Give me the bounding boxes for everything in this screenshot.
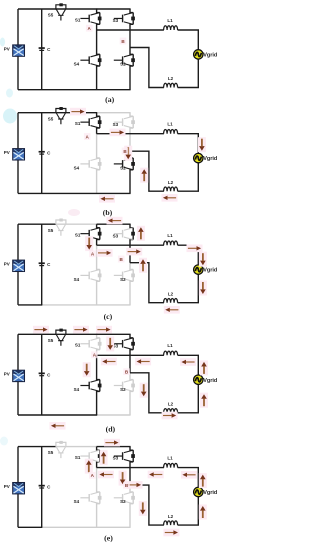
transistor S4 (e) gate lead [80,497,89,499]
svg-text:S4: S4 [74,165,80,170]
current arrow u (c) through S3 diode [137,226,145,241]
wire S4 to bottom rail (e) [97,504,100,528]
svg-text:S2: S2 [120,499,126,504]
svg-text:Vgrid: Vgrid [203,53,217,59]
svg-text:S3: S3 [113,18,119,23]
svg-text:S5: S5 [48,338,54,343]
svg-text:(e): (e) [104,534,113,543]
transistor S5 (d) body trapezoid [56,335,65,341]
svg-text:L1: L1 [167,18,173,23]
svg-text:Vgrid: Vgrid [203,378,217,384]
current arrow r (e) node B to L2 branch [127,481,143,489]
transistor S4 (a) gate lead [80,59,89,61]
wire top rail right (e) [97,446,131,448]
transistor S3 (d) channel/diode bar [132,338,134,350]
wire S3 emitter lead to node B (b) [130,128,133,151]
transistor S1 (e) channel/diode bar [99,450,101,462]
transistor S1 (b) gate lead [80,121,89,123]
transistor S5 (c) body trapezoid [56,225,65,231]
wire top rail left (d) [18,333,56,335]
wire L1 to grid (d) [178,355,199,375]
transistor S3 (d) body [124,338,133,350]
background smudge 6 [0,437,8,446]
transistor S3 (c) gate lead [114,233,123,235]
wire node A to S4 (a) [97,30,100,54]
wire L1 to grid (c) [178,245,199,265]
current arrow r (e) through L2 [163,529,179,537]
transistor S5 (d) gate [58,341,63,346]
svg-text:S5: S5 [48,228,54,233]
current arrow r (b) top rail after S5 [70,108,86,116]
current arrow u (d) out of grid top [200,360,208,375]
wire node B to S2 (a) [130,48,133,55]
node A (b) [84,133,91,140]
node A (c) [89,250,96,257]
svg-text:S5: S5 [48,450,54,455]
wire node B to S2 (c) [130,263,133,270]
wire left rail / PV branch (b) [17,113,19,194]
AC source Vgrid (b) [194,153,203,162]
transistor S2 (a) body [124,54,133,66]
wire S1 emitter lead to node A (a) [97,24,100,30]
wire node A to L1 (a) [97,29,164,31]
transistor S2 (e) gate lead [114,497,123,499]
svg-text:S3: S3 [113,233,119,238]
svg-text:(d): (d) [106,425,116,434]
transistor S5 (c) gate [58,231,63,236]
transistor S3 (b) diode dot [131,120,135,124]
svg-text:L2: L2 [168,291,174,296]
svg-text:S1: S1 [75,121,81,126]
wire bottom rail active part (e) [18,526,42,528]
wire top rail right (c) [97,223,131,225]
svg-text:PV: PV [4,150,10,155]
svg-text:S2: S2 [120,165,126,170]
inductor L1 (c) [164,241,178,245]
wire S3 collector lead (a) [130,9,133,13]
wire S1 emitter lead to node A (d) [97,350,100,356]
transistor S3 (b) body [124,116,133,128]
transistor S2 (c) body [124,270,133,282]
wire L2 to node B branch (a) [130,48,164,88]
current arrow l (e) L1 to node A 1 [98,471,114,479]
wire S3 emitter lead to node B (a) [130,24,133,47]
transistor S1 (e) gate bar [88,452,90,460]
transistor S5 (e) diode dot [59,441,62,444]
transistor S1 (a) gate lead [80,17,89,19]
current arrow r (c) after L1 [187,245,203,253]
current arrow l (d) L1 to node A 3 [180,358,196,366]
transistor S3 (c) channel/diode bar [132,228,134,240]
transistor S3 (d) gate lead [114,343,123,345]
wire top rail left (c) [18,223,56,225]
svg-text:L2: L2 [168,402,174,407]
current arrow l (c) through L2 [164,306,180,314]
svg-text:(b): (b) [103,208,113,217]
transistor S4 (d) diode dot [98,384,102,388]
transistor S1 (c) gate lead [80,233,89,235]
svg-text:S1: S1 [75,17,81,22]
transistor S2 (d) gate bar [122,382,124,390]
inductor L2 (a) [164,83,178,87]
inductor L2 (b) [164,187,178,191]
transistor S3 (a) gate bar [122,15,124,23]
PV module (e) [13,483,25,494]
svg-text:(c): (c) [104,312,113,321]
transistor S3 (d) gate bar [122,340,124,348]
transistor S3 (a) diode dot [131,17,135,21]
transistor S2 (e) body [124,492,133,504]
transistor S3 (a) channel/diode bar [132,13,134,25]
transistor S3 (e) gate bar [122,452,124,460]
transistor S2 (c) channel/diode bar [132,270,134,282]
transistor S4 (c) channel/diode bar [99,270,101,282]
transistor S1 (b) diode dot [98,120,102,124]
svg-text:Vgrid: Vgrid [203,490,217,496]
transistor S4 (c) body [91,270,100,282]
PV module (a) [13,45,25,56]
node B (e) [123,482,130,489]
current arrow d (c) out of grid bottom [199,281,207,296]
current arrow r (c) node A to L1 2 [126,248,142,256]
transistor S2 (b) gate bar [122,160,124,168]
wire L1 to grid (e) [178,468,199,488]
transistor S3 (a) body [124,13,133,25]
svg-text:S1: S1 [75,232,81,237]
svg-text:L2: L2 [168,76,174,81]
wire grid to L2 (e) [178,497,199,525]
inductor L1 (a) [164,26,178,30]
transistor S5 (a) diode dot [59,3,62,6]
inductor L1 (d) [164,351,178,355]
wire grid to L2 (a) [178,59,199,87]
current arrow l (c) top rail S3 to S1 [107,217,123,225]
transistor S5 (c) diode dot [59,219,62,222]
svg-text:S5: S5 [48,13,54,18]
transistor S2 (e) gate bar [122,494,124,502]
AC source Vgrid (d) [194,375,203,384]
transistor S2 (a) channel/diode bar [132,54,134,66]
transistor S5 (b) stubs and diode path [56,109,66,113]
wire top rail left (b) [18,112,56,114]
transistor S1 (c) body [91,228,100,240]
svg-text:S2: S2 [120,387,126,392]
transistor S1 (d) gate bar [88,340,90,348]
svg-text:S4: S4 [74,62,80,67]
transistor S1 (c) channel/diode bar [99,228,101,240]
wire top rail left (a) [18,8,56,10]
wire node A to S4 (b) [97,134,100,158]
capacitor C (b) [39,151,45,155]
transistor S4 (b) body [91,158,100,170]
transistor S1 (a) diode dot [98,17,102,21]
wire top rail mid (b) [55,112,97,114]
svg-text:S1: S1 [75,455,81,460]
current arrow l (d) L1 to node A 2 [135,358,151,366]
current arrow d (d) into S3 [106,336,114,351]
transistor S1 (c) diode dot [98,232,102,236]
svg-text:L1: L1 [167,455,173,460]
PV module (d) [13,370,25,381]
node B (c) [118,256,125,263]
wire S3 collector lead (b) [130,113,133,117]
transistor S4 (d) gate bar [88,382,90,390]
svg-text:S4: S4 [74,387,80,392]
transistor S1 (d) diode dot [98,342,102,346]
transistor S1 (a) body [91,13,100,25]
transistor S4 (a) diode dot [98,58,102,62]
current arrow u (d) into grid bottom [200,393,208,408]
transistor S2 (b) channel/diode bar [132,158,134,170]
node B (a) [120,38,127,45]
wire bottom rail inactive part (e) [42,526,131,528]
wire S2 to bottom rail (c) [130,281,133,305]
current arrow r (b) node A to L1 [110,129,126,137]
svg-text:S5: S5 [48,116,54,121]
wire node A to S4 (d) [97,355,100,379]
transistor S5 (b) diode dot [59,107,62,110]
current arrow d (d) node B branch down [140,383,148,398]
wire capacitor branch (d) [41,334,43,415]
wire S4 to bottom rail (d) [97,391,100,415]
transistor S2 (b) body [124,158,133,170]
node A (d) [91,351,98,358]
wire node A to L1 (d) [97,354,164,356]
transistor S1 (a) channel/diode bar [99,13,101,25]
transistor S5 (a) body trapezoid [56,9,65,15]
background smudge 2 [6,89,13,98]
wire S1 collector lead (c) [97,224,100,228]
transistor S3 (c) gate bar [122,230,124,238]
transistor S2 (d) channel/diode bar [132,380,134,392]
wire top rail right (a) [97,8,131,10]
current arrow r (e) top rail S1 to S3 [104,439,120,447]
transistor S1 (b) gate bar [88,118,90,126]
wire capacitor branch (a) [41,9,43,90]
svg-text:PV: PV [4,372,10,377]
wire S3 collector lead (e) [130,447,133,451]
wire top rail left (e) [18,446,56,448]
transistor S1 (e) gate lead [80,455,89,457]
transistor S3 (b) gate lead [114,121,123,123]
transistor S3 (a) gate lead [114,17,123,19]
transistor S1 (e) diode dot [98,454,102,458]
current arrow u (c) L2 branch up [139,258,147,273]
wire node B to S2 (d) [130,373,133,380]
wire top rail mid (a) [55,8,97,10]
svg-text:L2: L2 [168,514,174,519]
inductor L2 (c) [164,299,178,303]
wire S4 to bottom rail (c) [97,281,100,305]
wire L2 to node B branch (b) [130,151,164,191]
wire S2 to bottom rail (b) [130,170,133,194]
wire node A to L1 (b) [97,133,164,135]
wire L1 to grid (a) [178,30,199,50]
transistor S1 (a) gate bar [88,15,90,23]
current arrow d (e) S3 into node B [119,471,127,486]
wire L2 to node B branch (e) [130,485,164,525]
current arrow d (d) node A into S4 [83,362,91,377]
wire left rail / PV branch (c) [17,224,19,305]
transistor S5 (d) diode dot [59,329,62,332]
transistor S5 (c) stubs and diode path [56,220,66,224]
wire S2 to bottom rail (d) [130,391,133,415]
wire S4 to bottom rail (b) [97,170,100,194]
PV module (c) [13,260,25,271]
current arrow r (c) node A to L1 1 [97,249,113,257]
wire node A to L1 (c) [97,244,164,246]
current arrow r (d) top rail after S5 [73,326,89,334]
svg-text:L2: L2 [168,180,174,185]
wire S1 collector lead (d) [97,334,100,338]
node B (d) [123,368,130,375]
wire L1 to grid (b) [178,134,199,154]
transistor S4 (d) body [91,380,100,392]
transistor S1 (b) channel/diode bar [99,116,101,128]
transistor S5 (d) stubs and diode path [56,330,66,334]
transistor S2 (e) diode dot [131,496,135,500]
current arrow l (d) L1 to node A 1 [101,358,117,366]
transistor S3 (e) gate lead [114,455,123,457]
transistor S4 (b) channel/diode bar [99,158,101,170]
transistor S4 (a) gate bar [88,56,90,64]
wire bottom rail (b) [18,192,131,194]
capacitor C (c) [39,262,45,266]
current arrow d (c) S1 into node A [85,236,93,251]
inductor L2 (d) [164,409,178,413]
node A (a) [86,25,93,32]
current arrow l (b) bottom rail return [99,195,115,203]
transistor S5 (b) body trapezoid [56,113,65,119]
wire S1 emitter lead to node A (c) [97,240,100,246]
transistor S5 (e) gate [58,453,63,458]
wire node A to L1 (e) [97,467,164,469]
transistor S3 (b) channel/diode bar [132,116,134,128]
current arrow u (e) into grid bottom [199,505,207,520]
svg-text:Vgrid: Vgrid [203,268,217,274]
wire L2 to node B branch (c) [130,263,164,303]
transistor S2 (a) gate lead [114,59,123,61]
svg-text:S2: S2 [120,277,126,282]
transistor S4 (c) diode dot [98,274,102,278]
transistor S5 (b) gate [58,119,63,124]
transistor S2 (c) gate bar [122,272,124,280]
wire node A to S4 (e) [97,468,100,492]
AC source Vgrid (a) [194,50,203,59]
svg-text:S4: S4 [74,499,80,504]
AC source Vgrid (c) [194,265,203,274]
svg-text:PV: PV [4,484,10,489]
transistor S4 (e) diode dot [98,496,102,500]
wire S3 emitter lead to node B (d) [130,350,133,373]
wire S1 emitter lead to node A (e) [97,462,100,468]
wire S3 emitter lead to node B (e) [130,462,133,485]
wire S1 collector lead (a) [97,9,100,13]
transistor S4 (a) body [91,54,100,66]
transistor S5 (e) stubs and diode path [56,442,66,446]
svg-text:L1: L1 [167,233,173,238]
wire left rail / PV branch (e) [17,447,19,528]
transistor S2 (a) gate bar [122,56,124,64]
transistor S2 (d) body [124,380,133,392]
node B (b) [122,148,129,155]
current arrow u (e) through S1 diode [100,450,108,465]
transistor S2 (b) gate lead [114,163,123,165]
wire bottom rail inactive part (c) [42,304,131,306]
transistor S4 (e) body [91,492,100,504]
svg-text:Vgrid: Vgrid [203,156,217,162]
transistor S4 (a) channel/diode bar [99,54,101,66]
transistor S2 (b) diode dot [131,162,135,166]
capacitor C (e) [39,485,45,489]
svg-text:S1: S1 [75,343,81,348]
wire top rail right (b) [97,112,131,114]
transistor S4 (c) gate lead [80,274,89,276]
inductor L1 (e) [164,463,178,467]
transistor S2 (e) channel/diode bar [132,492,134,504]
wire bottom rail active part (d) [18,414,97,416]
current arrow u (b) L2 branch up [140,168,148,183]
transistor S2 (c) diode dot [131,274,135,278]
transistor S1 (e) body [91,450,100,462]
transistor S1 (c) gate bar [88,230,90,238]
transistor S4 (e) gate bar [88,494,90,502]
transistor S4 (b) gate bar [88,160,90,168]
transistor S3 (c) body [124,228,133,240]
transistor S3 (b) gate bar [122,118,124,126]
wire top rail mid (d) [55,333,97,335]
wire S3 collector lead (c) [130,224,133,228]
transistor S3 (d) diode dot [131,342,135,346]
svg-text:S4: S4 [74,277,80,282]
AC source Vgrid (e) [194,487,203,496]
transistor S4 (d) gate lead [80,385,89,387]
current arrow d (c) into grid top [199,252,207,267]
inductor L1 (b) [164,130,178,134]
transistor S5 (e) body trapezoid [56,447,65,453]
wire S4 to bottom rail (a) [97,66,100,90]
background smudge 4 [68,209,80,216]
background smudge 1 [0,38,5,47]
wire grid to L2 (c) [178,274,199,302]
wire bottom rail inactive part (d) [97,414,131,416]
transistor S5 (a) stubs and diode path [56,5,66,9]
wire left rail / PV branch (d) [17,334,19,415]
current arrow l (e) L1 to node A 2 [148,471,164,479]
wire grid to L2 (b) [178,163,199,191]
inductor L2 (e) [164,521,178,525]
wire top rail mid (e) [55,446,97,448]
transistor S3 (e) body [124,450,133,462]
wire left rail / PV branch (a) [17,9,19,90]
wire S1 emitter lead to node A (b) [97,128,100,134]
transistor S4 (d) channel/diode bar [99,380,101,392]
wire S3 collector lead (d) [130,334,133,338]
wire top rail mid (c) [55,223,97,225]
wire bottom rail active part (c) [18,304,42,306]
current arrow d (b) node B into S2 [124,146,132,161]
current arrow l (e) L1 to node A 3 [181,471,197,479]
transistor S1 (b) body [91,116,100,128]
current arrow r (d) through L2 [162,412,178,420]
wire S2 to bottom rail (a) [130,66,133,90]
wire node A to S4 (c) [97,245,100,269]
transistor S4 (c) gate bar [88,272,90,280]
transistor S1 (d) channel/diode bar [99,338,101,350]
svg-text:PV: PV [4,262,10,267]
wire node B to S2 (e) [130,485,133,492]
wire grid to L2 (d) [178,384,199,412]
